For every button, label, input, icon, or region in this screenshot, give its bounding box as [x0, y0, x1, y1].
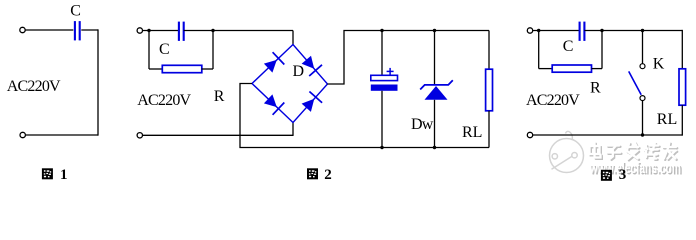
wire (fig3 left drop to R)	[538, 31, 540, 69]
svg-text:AC220V: AC220V	[526, 92, 580, 109]
capacitor C (fig1)	[75, 21, 80, 40]
resistor RL (fig3)	[679, 69, 686, 105]
wire (fig3 RL bottom lead)	[681, 105, 683, 135]
bridge rectifier D (diamond outline)	[252, 45, 328, 123]
junction (fig2 top bus at zener)	[433, 29, 436, 32]
junction (fig2 top bus at filter cap)	[380, 29, 383, 32]
resistor R (fig2)	[162, 65, 202, 72]
svg-text:RL: RL	[462, 124, 482, 141]
svg-text:K: K	[653, 56, 665, 73]
wire (fig1 bottom rail)	[25, 134, 98, 136]
terminal (fig2 AC top)	[137, 28, 142, 33]
wire (fig2 bottom AC lead)	[142, 134, 293, 136]
wire (fig3 RL top lead)	[681, 30, 683, 69]
wire (fig2 right drop to R)	[212, 31, 214, 70]
junction (fig3 bottom node at switch)	[641, 133, 644, 136]
wire (fig2 filter cap bottom lead)	[381, 91, 383, 148]
wire (fig3 top rail to RL)	[584, 30, 682, 32]
wire (fig1 top rail right of C)	[81, 29, 98, 31]
svg-text:R: R	[590, 80, 601, 97]
terminal (fig3 AC bottom)	[527, 132, 532, 137]
terminal (fig1 AC top)	[20, 27, 25, 32]
resistor R (fig3)	[552, 65, 591, 72]
wire (fig2 negative rail: bridge left vertex to bottom bus)	[240, 84, 489, 148]
svg-text:C: C	[159, 41, 169, 58]
junction (fig2 top left node)	[147, 29, 150, 32]
capacitor C (fig3)	[580, 22, 585, 41]
wire (fig2 filter cap top lead)	[381, 31, 383, 76]
watermark brand characters	[590, 143, 678, 161]
wire (fig2 left drop to R)	[148, 31, 150, 70]
junction (fig3 top node at switch)	[641, 29, 644, 32]
svg-text:2: 2	[324, 167, 332, 183]
svg-text:RL: RL	[657, 111, 677, 128]
wire (fig2 RL top lead)	[488, 31, 490, 70]
wire (fig3 bottom rail)	[533, 134, 683, 136]
wire (fig2 zener cathode lead)	[434, 31, 436, 86]
diode (bridge lower-right)	[302, 92, 323, 112]
wire (fig2 drop to bridge top vertex)	[292, 31, 294, 46]
terminal (fig3 AC top)	[527, 28, 532, 33]
junction (fig2 bottom bus at filter cap)	[380, 146, 383, 149]
junction (fig2 bottom bus at zener)	[433, 146, 436, 149]
wire (fig2 positive rail: bridge right vertex to top bus)	[328, 31, 490, 85]
polarized capacitor negative plate	[371, 85, 398, 91]
caption glyph tu (fig1)	[42, 168, 53, 179]
terminal (fig2 AC bottom)	[137, 133, 142, 138]
switch K top contact	[640, 64, 645, 69]
wire (fig2 top rail to bridge)	[184, 30, 293, 32]
wire (fig1 right rail)	[97, 29, 99, 135]
svg-text:C: C	[563, 38, 573, 55]
junction (fig2 top right node)	[211, 29, 214, 32]
capacitor C (fig2)	[179, 22, 184, 41]
junction (fig3 top left node)	[537, 29, 540, 32]
wire (fig2 top rail to C)	[142, 30, 179, 32]
caption glyph tu (fig3)	[601, 170, 612, 181]
svg-text:1: 1	[60, 167, 68, 183]
polarized capacitor + sign	[387, 68, 394, 75]
switch K bottom contact	[640, 96, 645, 101]
zener diode Dw	[420, 80, 453, 100]
switch K lever	[629, 71, 642, 94]
wire (fig2 zener anode lead)	[434, 100, 436, 148]
wire (fig3 switch to bottom rail)	[642, 101, 644, 135]
svg-text:AC220V: AC220V	[137, 92, 191, 109]
wire (fig2 riser to bridge bottom vertex)	[292, 123, 294, 136]
wire (fig1 top rail left of C)	[25, 29, 73, 31]
caption glyph tu (fig2)	[307, 168, 318, 179]
svg-text:AC220V: AC220V	[7, 78, 61, 95]
wire (fig3 right drop to R)	[601, 31, 603, 69]
wire (fig2 RL bottom lead)	[488, 111, 490, 148]
svg-text:3: 3	[619, 167, 627, 183]
junction (fig3 top right node)	[600, 29, 603, 32]
diode (bridge upper-right)	[302, 56, 322, 76]
terminal (fig1 AC bottom)	[20, 132, 25, 137]
diode (bridge upper-left)	[264, 52, 284, 72]
wire (fig3 R left lead)	[539, 68, 553, 70]
wire (fig3 top rail to C)	[533, 30, 580, 32]
watermark logo circle	[550, 131, 584, 172]
wire (fig2 R right lead)	[202, 68, 214, 70]
svg-text:Dw: Dw	[411, 116, 434, 133]
polarized capacitor positive plate	[371, 75, 398, 80]
svg-text:C: C	[70, 3, 80, 20]
wire (fig2 R left lead)	[149, 68, 163, 70]
diode (bridge lower-left)	[264, 94, 284, 114]
wire (fig3 lead to switch top contact)	[642, 31, 644, 64]
svg-text:D: D	[293, 63, 304, 80]
svg-text:R: R	[214, 88, 225, 105]
wire (fig3 R right lead)	[592, 68, 603, 70]
resistor RL (fig2)	[486, 69, 493, 111]
